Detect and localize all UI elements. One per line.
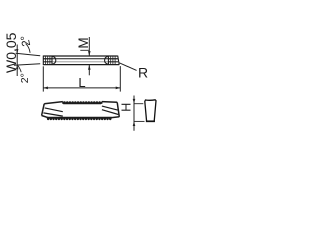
plan view: left head bbox=[42, 102, 64, 118]
svg-text:R: R bbox=[138, 64, 148, 80]
end view outline bbox=[145, 100, 156, 122]
side view: bar second line bbox=[43, 58, 118, 60]
plan view: right head bbox=[102, 102, 120, 118]
dimension line W bbox=[16, 45, 19, 77]
svg-text:2°: 2° bbox=[19, 34, 33, 47]
dimension line H bbox=[133, 96, 136, 131]
side view: left end face bbox=[42, 56, 44, 66]
side view: left chip former bbox=[52, 56, 56, 65]
plan view: top serrated edge bbox=[63, 101, 101, 104]
leader 2 deg bottom bbox=[18, 65, 22, 72]
plan view: left head chip groove lines bbox=[43, 108, 62, 116]
side view: right head hatch rows bbox=[108, 59, 118, 62]
side view: right end face bbox=[118, 56, 120, 65]
side view: bar mid faint line bbox=[43, 61, 118, 63]
svg-text:M: M bbox=[76, 37, 91, 48]
dimension L extension line left bbox=[42, 66, 44, 91]
end view bottom edge bbox=[146, 120, 155, 122]
plan view: bottom serrated edge bbox=[47, 117, 112, 120]
extension line H top bbox=[134, 103, 143, 105]
label W0.05 bbox=[3, 32, 19, 73]
taper line lower (2 deg) bbox=[14, 64, 40, 66]
svg-text:H: H bbox=[120, 103, 134, 112]
svg-text:L: L bbox=[78, 75, 85, 90]
svg-text:W0.05: W0.05 bbox=[3, 32, 19, 73]
taper line upper (2 deg) bbox=[16, 53, 41, 55]
extension line H bottom bbox=[134, 120, 145, 122]
leader R bbox=[119, 63, 137, 71]
side view: right head serration dashes bbox=[111, 56, 115, 65]
side view: bar top edge bbox=[43, 55, 117, 57]
dimension M lower line with arrow bbox=[88, 65, 91, 76]
side view: bar bottom edge bbox=[43, 64, 119, 66]
dimension M upper line with arrow bbox=[80, 37, 90, 56]
side view: left head serration dashes bbox=[46, 56, 50, 65]
dimension line L bbox=[43, 87, 120, 90]
side view: left head hatch rows bbox=[43, 59, 52, 62]
svg-text:2°: 2° bbox=[19, 73, 31, 83]
plan view: right head chip groove lines bbox=[102, 106, 119, 114]
leader 2 deg top bbox=[26, 44, 31, 53]
dimension L extension line right bbox=[119, 66, 121, 92]
side view: right chip former bbox=[105, 56, 109, 65]
